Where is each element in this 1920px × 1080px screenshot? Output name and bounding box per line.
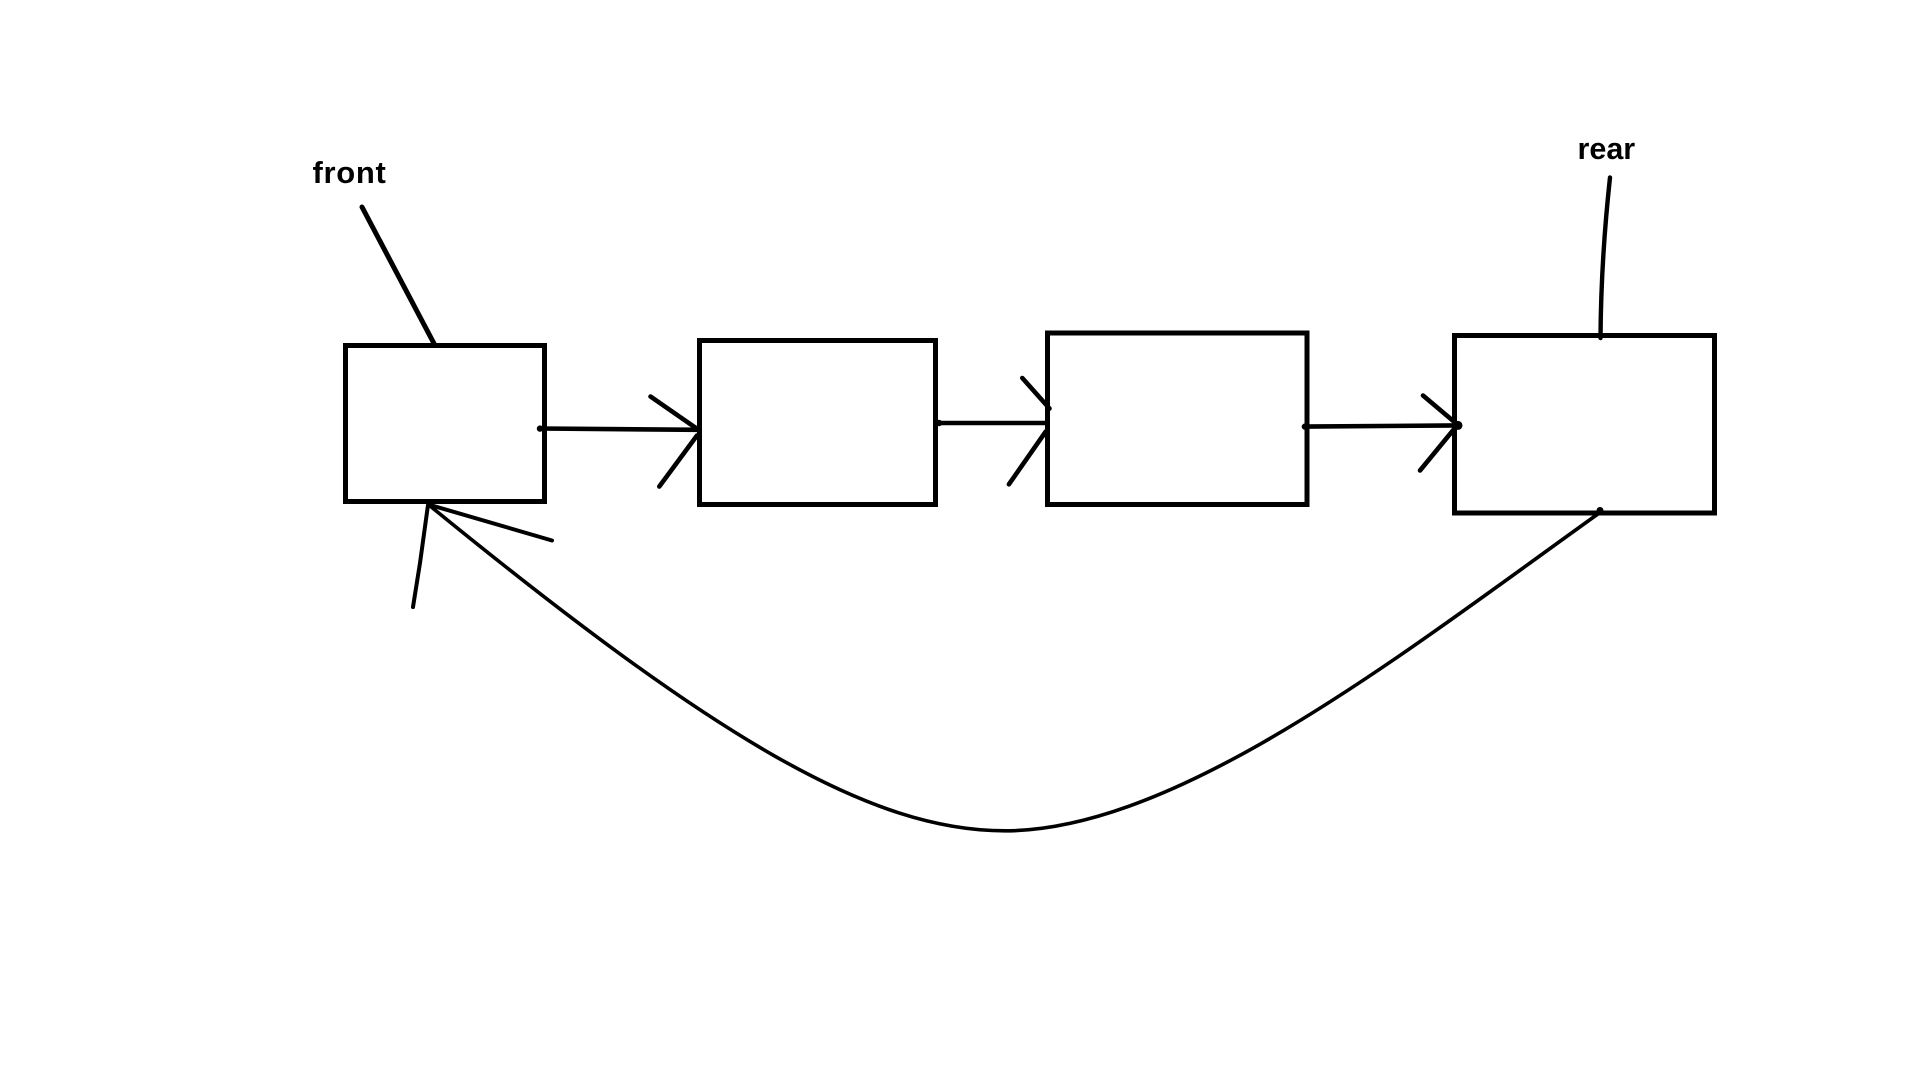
rear pointer line: [1601, 178, 1611, 339]
node box 2: [700, 341, 936, 505]
loop-back curve start dot: [1597, 507, 1604, 514]
node box 3: [1048, 333, 1308, 505]
front pointer line: [362, 207, 435, 345]
node box 1: [346, 346, 545, 502]
arrow 2 lower barb: [1009, 432, 1046, 485]
svg-text:rear: rear: [1578, 132, 1636, 166]
arrow 1 start dot: [537, 425, 543, 431]
arrow 2 upper barb: [1022, 378, 1049, 409]
svg-text:front: front: [313, 155, 387, 190]
arrow 3 shaft: [1304, 425, 1458, 426]
loop-back arrowhead upper barb: [429, 505, 553, 541]
loop-back arrowhead lower barb: [413, 505, 428, 607]
node box 4: [1455, 336, 1715, 514]
loop-back curve from rear node to front node: [430, 506, 1601, 831]
arrow 3 tip dot: [1454, 421, 1463, 430]
arrow 3 lower barb: [1420, 426, 1457, 471]
arrow 1 shaft: [540, 429, 698, 430]
arrow 2 shaft: [938, 421, 1047, 426]
arrow 1 lower barb: [659, 436, 697, 487]
arrow 1 upper barb: [651, 397, 700, 431]
arrow 3 start dot: [1302, 423, 1308, 429]
arrow 3 upper barb: [1423, 396, 1458, 426]
arrow 2 start dot: [936, 420, 942, 426]
